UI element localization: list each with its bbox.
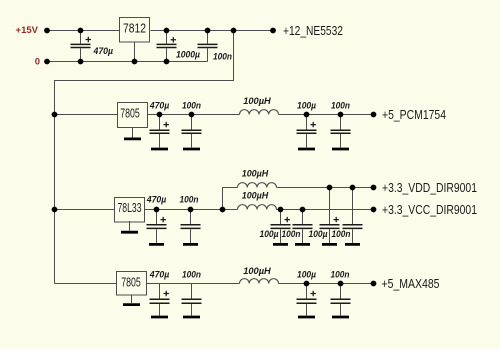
svg-text:100µH: 100µH [242, 191, 269, 201]
svg-text:100n: 100n [331, 270, 350, 280]
svg-text:100n: 100n [182, 270, 201, 280]
svg-text:470µ: 470µ [93, 46, 114, 56]
svg-text:+3.3_VDD_DIR9001: +3.3_VDD_DIR9001 [382, 180, 477, 195]
svg-text:7812: 7812 [123, 21, 146, 35]
svg-text:100n: 100n [331, 101, 350, 111]
svg-text:100µ: 100µ [309, 229, 329, 239]
svg-text:+3.3_VCC_DIR9001: +3.3_VCC_DIR9001 [382, 202, 477, 217]
svg-text:100µ: 100µ [260, 229, 280, 239]
svg-text:100µ: 100µ [297, 270, 317, 280]
svg-text:+15V: +15V [16, 25, 39, 36]
svg-text:+5_PCM1754: +5_PCM1754 [382, 107, 446, 122]
svg-text:100µH: 100µH [242, 168, 269, 178]
svg-text:100n: 100n [213, 51, 232, 61]
svg-text:100n: 100n [282, 229, 301, 239]
svg-text:470µ: 470µ [146, 195, 167, 205]
svg-text:0: 0 [35, 57, 40, 68]
svg-text:100n: 100n [332, 229, 351, 239]
svg-text:7805: 7805 [120, 107, 140, 121]
svg-text:100µH: 100µH [243, 266, 271, 276]
svg-text:100n: 100n [182, 101, 201, 111]
svg-text:100n: 100n [180, 195, 199, 205]
svg-text:470µ: 470µ [149, 101, 170, 111]
svg-text:78L33: 78L33 [118, 201, 142, 215]
svg-text:1000µ: 1000µ [176, 49, 201, 59]
svg-text:+5_MAX485: +5_MAX485 [382, 276, 440, 291]
svg-text:100µH: 100µH [243, 96, 271, 106]
svg-text:7805: 7805 [121, 275, 141, 289]
svg-text:+12_NE5532: +12_NE5532 [283, 23, 343, 38]
svg-text:470µ: 470µ [149, 270, 170, 280]
svg-text:100µ: 100µ [297, 101, 317, 111]
